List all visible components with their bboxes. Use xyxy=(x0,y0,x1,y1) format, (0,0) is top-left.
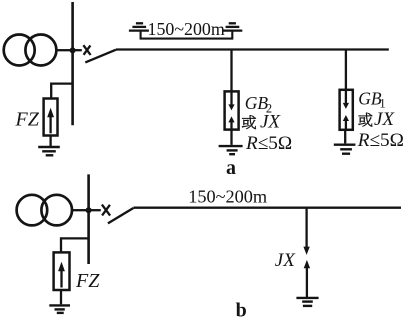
wire GB2 to ground xyxy=(230,130,232,145)
wire transformer to bus (b) xyxy=(72,209,87,211)
wire feeder line a xyxy=(116,48,389,50)
switch blade (b) xyxy=(108,208,133,223)
svg-text:R≤5Ω: R≤5Ω xyxy=(357,130,404,151)
svg-text:JX: JX xyxy=(260,112,281,133)
svg-text:150~200m: 150~200m xyxy=(148,19,225,39)
ground (up) right marker xyxy=(222,23,242,30)
wire bus (b) xyxy=(87,174,90,264)
wire bus to breaker (b) xyxy=(89,209,101,211)
node junction dot xyxy=(70,47,76,53)
breaker X1 (cross symbol) xyxy=(83,45,90,55)
ground under JX xyxy=(296,298,318,306)
label huo JX (left) xyxy=(242,115,256,129)
gap arrester GB2 box xyxy=(225,91,239,129)
wire feeder line b xyxy=(133,207,401,209)
dimension bracket 150-200m xyxy=(141,31,233,38)
svg-text:150~200m: 150~200m xyxy=(188,187,267,207)
wire bus to FZ arrester xyxy=(51,84,72,99)
ground under FZ (b) xyxy=(49,305,70,313)
arrester FZ arrow (b) xyxy=(58,262,65,288)
switch blade xyxy=(85,50,116,63)
svg-text:R≤5Ω: R≤5Ω xyxy=(245,133,292,154)
wire bus (vertical busbar) xyxy=(71,2,74,125)
svg-text:GB: GB xyxy=(358,89,382,109)
wire bus to FZ arrester (b) xyxy=(61,238,89,252)
spark gap JX up arrowhead xyxy=(304,260,310,268)
svg-text:a: a xyxy=(226,157,236,179)
wire GB1 to ground xyxy=(344,130,346,144)
arrester FZ box (b) xyxy=(54,252,70,290)
transformer T2 (two overlapping circles) xyxy=(17,195,72,226)
transformer T1 (two overlapping circles) xyxy=(4,35,57,66)
wire feeder to GB2 xyxy=(230,50,232,92)
wire bus to breaker xyxy=(73,49,82,51)
ground under GB1 xyxy=(334,145,356,154)
spark gap JX lower stem xyxy=(306,268,308,298)
ground under FZ (a) xyxy=(38,147,60,155)
node junction dot (b) xyxy=(86,207,92,213)
ground under GB2 xyxy=(219,146,243,154)
svg-text:FZ: FZ xyxy=(15,108,40,130)
breaker X2 (cross symbol) xyxy=(102,205,110,216)
wire FZ to ground xyxy=(49,136,51,147)
wire FZ to ground (b) xyxy=(60,290,62,304)
gap arrester GB1 box xyxy=(340,90,353,130)
svg-text:FZ: FZ xyxy=(75,270,100,292)
ground (up) left marker xyxy=(129,23,149,30)
arrester FZ box (a) xyxy=(44,99,58,136)
svg-text:JX: JX xyxy=(275,250,296,271)
svg-text:GB: GB xyxy=(245,93,269,113)
spark gap JX: wire feeder down xyxy=(305,209,307,248)
wire feeder to GB1 xyxy=(345,50,347,90)
spark gap JX down arrowhead xyxy=(303,247,309,255)
gap arrester GB1 arrows xyxy=(343,90,349,130)
svg-text:b: b xyxy=(236,300,247,317)
wire transformer to bus xyxy=(56,49,71,51)
gap arrester GB2 arrows xyxy=(228,91,234,129)
arrester FZ arrow (a) xyxy=(47,108,54,134)
label huo JX (right) xyxy=(358,113,372,127)
svg-text:JX: JX xyxy=(374,109,395,130)
